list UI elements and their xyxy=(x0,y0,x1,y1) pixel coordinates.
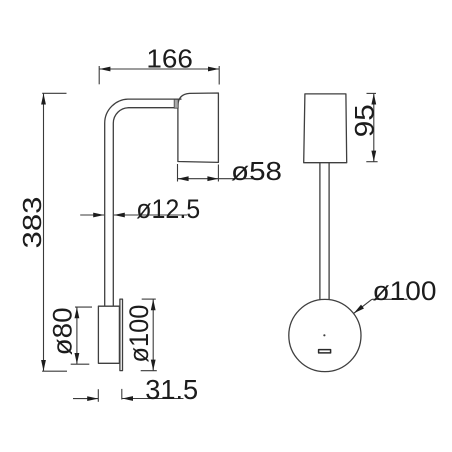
svg-text:ø100: ø100 xyxy=(373,276,437,306)
svg-text:ø12.5: ø12.5 xyxy=(136,194,200,224)
svg-text:95: 95 xyxy=(349,104,379,137)
svg-text:383: 383 xyxy=(17,197,47,249)
svg-text:31.5: 31.5 xyxy=(145,374,198,405)
svg-text:ø100: ø100 xyxy=(124,305,154,363)
svg-text:166: 166 xyxy=(146,44,193,74)
svg-text:ø58: ø58 xyxy=(231,156,282,186)
svg-text:ø80: ø80 xyxy=(48,307,78,355)
